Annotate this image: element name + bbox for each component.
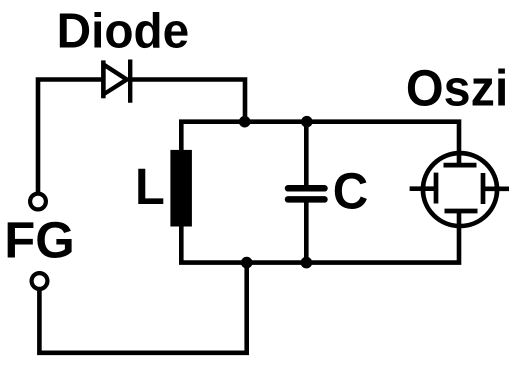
svg-text:FG: FG [4, 211, 75, 268]
svg-text:Oszi: Oszi [406, 59, 508, 116]
svg-text:C: C [333, 163, 369, 220]
svg-text:Diode: Diode [57, 4, 190, 59]
svg-text:L: L [135, 158, 165, 215]
